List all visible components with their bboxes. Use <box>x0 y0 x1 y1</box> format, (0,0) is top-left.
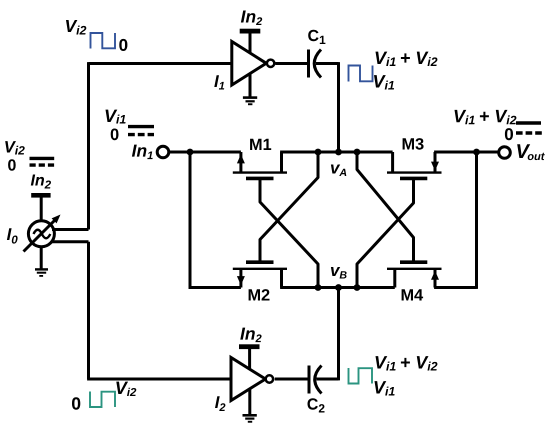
wire I2 output to C2 <box>275 378 308 381</box>
label Vi1 + Vi2 near C1 <box>376 52 438 66</box>
node dot In1 branch <box>187 149 194 156</box>
wire right rail vertical <box>475 152 478 289</box>
label 0 near In1 <box>111 129 119 141</box>
wire left rail upper segment <box>87 62 90 229</box>
node dot vA center <box>335 149 342 156</box>
wire left rail lower segment <box>87 242 90 379</box>
label Vi1 below C2 waveform <box>375 381 395 395</box>
wire M4 gate to vA (cross-coupling) <box>357 152 414 261</box>
label Vi1 + Vi2 near Vout <box>455 110 517 124</box>
wire top-left horizontal to I1 input <box>89 62 232 65</box>
DC level bars near In2 left <box>30 158 55 165</box>
inverter I2 <box>231 349 273 414</box>
wire M1 gate to vB (cross-coupling) <box>260 180 318 288</box>
wire M2 right to M4 left (vB row) <box>280 286 395 289</box>
ground below I0 <box>35 268 48 277</box>
wire In1 to M1 left terminal <box>170 151 241 154</box>
ground below I1 <box>243 96 257 105</box>
supply bar In2 above I0 <box>31 193 50 198</box>
waveform blue Vi1+Vi2 near C1 <box>349 66 373 82</box>
inverter I1 <box>232 34 274 97</box>
supply bar In2 above I1 <box>240 29 261 34</box>
waveform green Vi2 bottom-left <box>90 392 115 408</box>
wire C1 to corner <box>316 62 339 65</box>
label M2 <box>249 289 270 300</box>
terminal In1 <box>157 146 169 158</box>
wire M3 right to Vout <box>434 151 498 154</box>
transistor M1 <box>233 152 287 178</box>
label I2 <box>215 396 225 411</box>
supply bar In2 above I2 <box>239 344 260 349</box>
capacitor C1 <box>309 50 322 78</box>
label In2 above I2 <box>240 328 261 343</box>
label 0 bottom-left <box>72 397 80 409</box>
label Vi2 bottom waveform <box>116 382 136 396</box>
label C2 <box>308 398 325 412</box>
wire I0 upper stub <box>52 228 89 231</box>
wire C2 to corner <box>317 378 339 381</box>
node dot vA left <box>315 149 322 156</box>
waveform green Vi1+Vi2 near C2 <box>349 368 373 384</box>
node dot Vout branch <box>473 149 480 156</box>
wire M4 right to right rail <box>434 286 476 289</box>
transistor M3 <box>387 152 442 178</box>
wire M2 gate to vA (cross-coupling) <box>260 152 318 261</box>
label In2 left <box>31 175 51 189</box>
label Vi1 + Vi2 near C2 <box>376 356 438 370</box>
label Vi2 top-left <box>66 20 86 35</box>
label 0 near Vout <box>505 128 513 140</box>
node dot vA right <box>354 149 361 156</box>
label I0 current source <box>7 228 18 243</box>
wire I0 lower stub <box>52 240 89 243</box>
label node vB <box>331 267 347 279</box>
wire C1 branch vertical down to node vA <box>337 62 340 152</box>
waveform blue Vi2 top-left <box>91 33 116 49</box>
DC level bars near Vout <box>516 123 542 133</box>
label 0 top-left waveform <box>119 39 127 51</box>
node dot vB left <box>315 284 322 291</box>
label Vi1 near In1 <box>106 110 126 124</box>
DC level bars near In1 <box>128 127 154 135</box>
label 0 left <box>8 159 16 170</box>
label M1 <box>250 139 271 150</box>
label In2 above I1 <box>241 11 262 26</box>
node dot vB right <box>354 284 361 291</box>
wire In1 branch vertical down <box>189 152 192 289</box>
terminal Vout <box>499 147 511 159</box>
label Vi1 below C1 waveform <box>374 75 394 89</box>
wire bottom-left horizontal to I2 input <box>87 378 231 381</box>
label M3 <box>403 138 424 150</box>
wire bottom row to M2 left terminal <box>189 286 241 289</box>
wire M1 right to M3 left (vA row) <box>280 151 393 154</box>
node dot vB center <box>335 284 342 291</box>
label C1 <box>308 30 325 44</box>
ground below I2 <box>243 414 257 423</box>
transistor M4 <box>387 262 442 287</box>
label Vout terminal <box>517 144 545 160</box>
wire M3 gate to vB (cross-coupling) <box>357 180 414 288</box>
label node vA <box>331 165 346 177</box>
capacitor C2 <box>309 366 322 394</box>
label I1 <box>214 75 224 89</box>
wire I1 output to C1 <box>275 62 307 65</box>
current source I0 <box>24 197 61 269</box>
wire C2 branch vertical up to node vB <box>337 288 340 381</box>
transistor M2 <box>233 262 287 287</box>
label Vi2 left <box>5 141 25 154</box>
label M4 <box>402 289 424 300</box>
label In1 terminal <box>132 145 153 160</box>
